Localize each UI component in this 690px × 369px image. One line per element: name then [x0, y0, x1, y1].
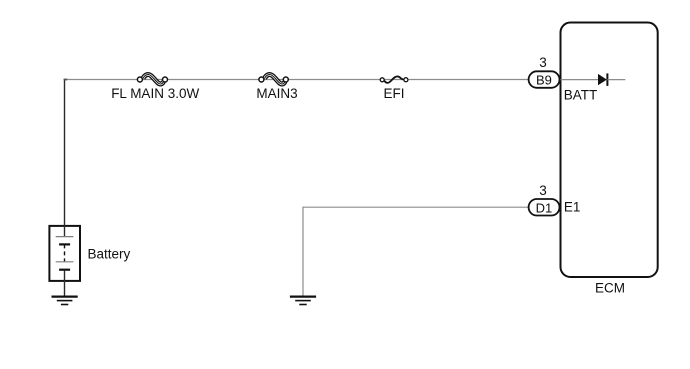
svg-text:MAIN3: MAIN3 [256, 86, 297, 101]
fusible link FL MAIN 3.0W [137, 75, 167, 84]
battery box [49, 226, 80, 281]
wire: middle horizontal to D1 [303, 206, 529, 208]
ECM box U1 [561, 23, 658, 278]
svg-text:D1: D1 [536, 200, 553, 215]
battery plate short 2 [59, 269, 70, 271]
svg-text:EFI: EFI [383, 86, 404, 101]
svg-text:3: 3 [539, 183, 547, 198]
svg-text:FL MAIN 3.0W: FL MAIN 3.0W [111, 86, 199, 101]
battery plate long 1 [56, 236, 74, 238]
svg-text:3: 3 [539, 55, 547, 70]
connector pin B9 [529, 71, 560, 88]
wire: ECM internal BATT cathode [607, 79, 625, 81]
ground: battery ground [52, 297, 78, 305]
svg-text:Battery: Battery [88, 246, 131, 261]
battery dashed cell link [64, 244, 66, 261]
svg-text:BATT: BATT [564, 87, 598, 102]
wire: top horizontal battery feed [65, 79, 529, 81]
svg-text:B9: B9 [536, 73, 552, 88]
node: junction corner at top-left [64, 79, 68, 81]
svg-text:E1: E1 [564, 200, 581, 215]
wire: vertical drop from top wire to battery [64, 79, 66, 226]
wire: vertical drop to center ground [302, 207, 304, 297]
fuse EFI [380, 76, 408, 82]
connector pin D1 [529, 199, 560, 216]
ground: center chassis ground [290, 297, 316, 305]
fusible link MAIN3 [259, 75, 288, 84]
battery plate short 1 [59, 243, 70, 245]
battery plate long 2 [56, 261, 74, 263]
svg-text:ECM: ECM [595, 281, 625, 296]
wire: ECM internal BATT anode [561, 79, 599, 81]
battery internal top lead [64, 225, 66, 237]
wire: battery bottom lead to ground [64, 270, 66, 297]
diode D inside ECM [598, 74, 607, 85]
